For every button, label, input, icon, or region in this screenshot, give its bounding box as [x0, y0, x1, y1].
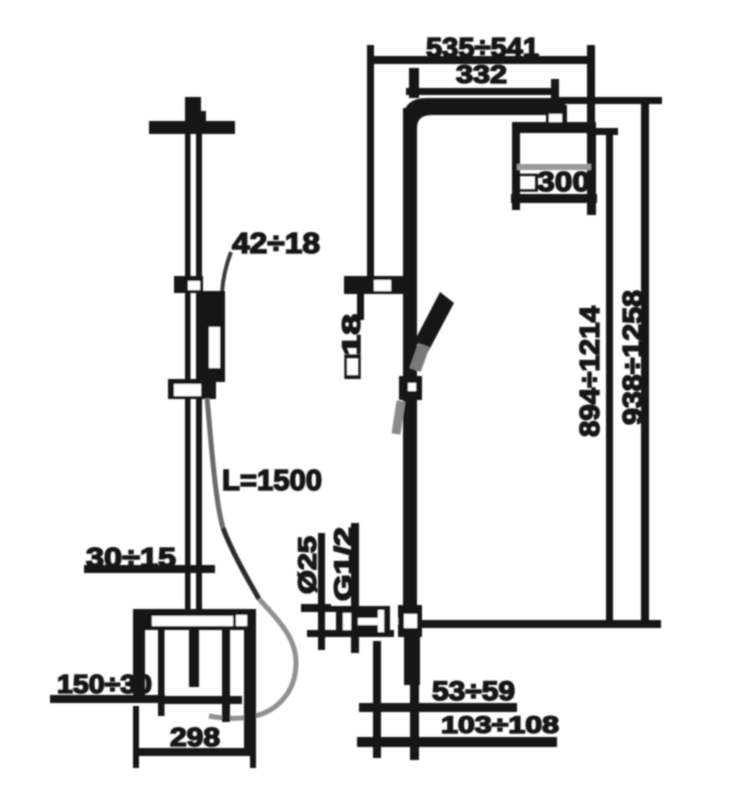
svg-text:Ø25: Ø25 [294, 536, 322, 594]
column pole left line [185, 134, 191, 612]
shower arm tube [403, 98, 565, 132]
supply dim line 2 [351, 523, 359, 653]
mixer inner crossbar [158, 696, 242, 704]
shower arm crossbar [149, 121, 235, 134]
mixer left wall [133, 630, 145, 700]
slider block [174, 276, 203, 293]
shower head spray face line [517, 164, 591, 170]
svg-text:□300: □300 [518, 166, 590, 197]
hand shower shaft grey [415, 345, 424, 370]
leader line 30÷15 [84, 565, 215, 573]
svg-text:103÷108: 103÷108 [441, 712, 559, 739]
hose bottom loop [209, 599, 296, 718]
inlet pipe thick [404, 637, 420, 685]
left extension tick [133, 706, 139, 768]
second dim right tick [551, 79, 559, 102]
leader line to 42÷18 [222, 252, 231, 292]
supply tick 1 [301, 604, 331, 612]
arm extension line to right [557, 97, 662, 104]
vertical dimension line 894÷1214 [606, 128, 613, 624]
hose stub front [396, 401, 401, 434]
svg-text:938÷1258: 938÷1258 [617, 290, 648, 425]
svg-text:298: 298 [170, 722, 220, 752]
hose upper run [207, 398, 223, 528]
reference base line [417, 620, 661, 628]
right extension tick [250, 700, 256, 768]
hose mid run [223, 528, 259, 599]
wall bracket lower [168, 379, 216, 399]
supply upper line [307, 606, 390, 612]
mixer inner right rib [222, 630, 230, 722]
svg-text:332: 332 [456, 61, 507, 89]
bottom dimension line 298 [133, 748, 256, 756]
column front view [403, 108, 417, 611]
top dimension line [368, 56, 595, 64]
hand shower handle front [414, 292, 454, 352]
extension line V1 [373, 641, 381, 758]
mixer top plate [133, 609, 256, 630]
mixer centre stem [189, 630, 199, 687]
head extension connector [595, 128, 618, 135]
dim line 103÷108 [357, 737, 557, 747]
shower head right wall [587, 133, 596, 215]
top stub of column [185, 97, 201, 134]
svg-text:53÷59: 53÷59 [432, 676, 515, 706]
svg-text:894÷1214: 894÷1214 [574, 306, 605, 437]
shower head bottom [511, 194, 597, 203]
shower head left wall [512, 133, 520, 210]
svg-text:□18: □18 [338, 314, 366, 378]
svg-text:G1/2: G1/2 [330, 527, 358, 601]
supply dim line 1 [318, 533, 325, 650]
column to mixer junction [398, 605, 422, 637]
second dim left tick [409, 68, 419, 98]
svg-text:42÷18: 42÷18 [232, 228, 320, 260]
stub notch [195, 111, 206, 122]
mixer right wall [244, 630, 256, 755]
vertical dimension line 938÷1258 [641, 98, 649, 624]
leader line 150÷30 [50, 695, 165, 703]
left extension line [367, 45, 374, 292]
column pole right line [196, 134, 202, 612]
hand shower body [201, 291, 225, 382]
second dimension line [406, 88, 559, 95]
head hanger block [546, 105, 567, 123]
svg-text:L=1500: L=1500 [222, 465, 322, 497]
holder block front [399, 376, 422, 400]
bracket leader line [357, 294, 364, 320]
wall bracket front [344, 276, 403, 294]
mixer valve block front [336, 606, 390, 636]
svg-text:150÷30: 150÷30 [57, 669, 152, 699]
shower head top [512, 122, 596, 133]
inlet pipe thin [410, 685, 419, 760]
dim line 53÷59 [359, 703, 517, 712]
supply lower line [307, 630, 394, 637]
right extension line [587, 45, 595, 128]
mixer inner left rib [158, 630, 165, 716]
